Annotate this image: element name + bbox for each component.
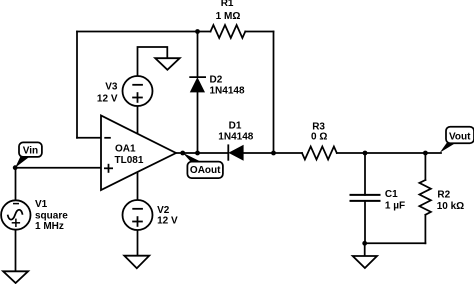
wire D2 branch lower — [197, 92, 199, 153]
wire bottom row — [365, 242, 426, 244]
ground near V3 — [155, 58, 180, 70]
resistor R1 — [211, 25, 246, 38]
wire opamp to V2 — [137, 172, 139, 200]
wire Vin to noninverting input — [15, 167, 101, 169]
svg-text:1 MΩ: 1 MΩ — [216, 11, 241, 22]
wire V1 to ground — [15, 230, 17, 271]
svg-text:Vin: Vin — [23, 145, 38, 156]
node Vin dot — [13, 165, 18, 170]
ground under V1 — [3, 271, 28, 283]
svg-text:V1: V1 — [35, 199, 48, 210]
op-amp OA1 — [101, 116, 176, 191]
wire V3 bottom to opamp — [137, 106, 139, 134]
wire D2 branch upper — [197, 32, 199, 78]
wire ground stub bottom — [364, 243, 366, 256]
node label Vin — [15, 142, 42, 167]
svg-text:TL081: TL081 — [115, 155, 144, 166]
wire R3 to Vout end — [337, 152, 441, 154]
svg-text:12 V: 12 V — [97, 94, 118, 105]
svg-text:R1: R1 — [221, 0, 234, 9]
wire R2 branch upper — [424, 153, 426, 180]
ground bottom right — [353, 256, 377, 268]
wire D1 to R3 — [243, 152, 302, 154]
wire feedback from inverting input left — [77, 137, 101, 139]
svg-text:10 kΩ: 10 kΩ — [437, 201, 464, 212]
wire R2 lower — [424, 215, 426, 244]
voltage source V3 — [97, 76, 153, 106]
wire V2 to ground — [137, 230, 139, 256]
node label Vout — [440, 127, 474, 153]
svg-text:0 Ω: 0 Ω — [311, 132, 327, 143]
svg-text:Vout: Vout — [449, 132, 471, 143]
source V1 — [1, 199, 68, 232]
node OAout dot — [180, 151, 185, 156]
wire Vin node to V1 — [15, 168, 17, 200]
node bottom junction — [362, 241, 367, 246]
svg-text:1N4148: 1N4148 — [210, 86, 245, 97]
wire C1 branch lower — [364, 201, 366, 243]
wire opamp output to D1 — [176, 152, 228, 154]
svg-text:C1: C1 — [385, 189, 398, 200]
wire right vertical down to output row — [273, 32, 275, 154]
ground under V2 — [124, 256, 149, 269]
resistor R3 — [302, 147, 337, 160]
svg-text:V2: V2 — [157, 205, 170, 216]
node R2 junction — [423, 151, 428, 156]
svg-text:OAout: OAout — [190, 165, 221, 176]
wire feedback vertical — [76, 32, 78, 138]
svg-text:R2: R2 — [437, 189, 450, 200]
svg-text:1N4148: 1N4148 — [218, 131, 253, 142]
wire R1 right to corner — [245, 31, 273, 33]
svg-text:V3: V3 — [105, 82, 118, 93]
svg-text:OA1: OA1 — [115, 143, 136, 154]
capacitor C1 — [350, 189, 406, 211]
svg-text:1 MHz: 1 MHz — [35, 221, 64, 232]
svg-text:12 V: 12 V — [157, 215, 178, 226]
wire V3 top — [138, 47, 168, 76]
node D2 output row junction — [195, 151, 200, 156]
svg-text:D1: D1 — [229, 120, 242, 131]
svg-text:D2: D2 — [210, 75, 223, 86]
resistor R2 — [419, 180, 431, 215]
diode D1 — [218, 120, 253, 160]
wire C1 branch upper — [364, 153, 366, 195]
svg-text:square: square — [35, 211, 68, 222]
svg-text:1 µF: 1 µF — [385, 201, 405, 212]
diode D2 — [189, 75, 245, 97]
node C1 junction — [363, 151, 368, 156]
node R1 output row junction — [271, 151, 276, 156]
voltage source V2 — [123, 200, 179, 230]
wire top horizontal to R1 — [77, 31, 211, 33]
node top D2 junction — [195, 29, 200, 34]
node label OAout — [183, 153, 223, 178]
